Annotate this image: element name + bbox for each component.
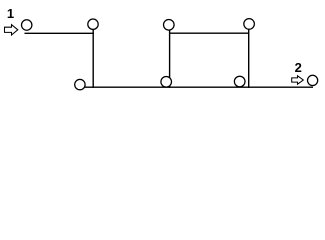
node H	[308, 75, 318, 85]
wire: bottom bus from node C to node H	[84, 86, 314, 88]
svg-text:1: 1	[7, 6, 14, 21]
arrow: output port 2	[292, 76, 304, 84]
wire: input lead from node A to corner	[25, 32, 94, 34]
wire: rectangle right vertical	[248, 29, 250, 88]
node B	[88, 19, 98, 29]
svg-text:2: 2	[295, 60, 302, 75]
node E	[164, 20, 175, 31]
wire: rectangle top horizontal	[170, 32, 249, 34]
node A	[22, 20, 32, 30]
wire: vertical drop from node B	[92, 29, 94, 88]
wire: rectangle left vertical	[169, 30, 171, 88]
node D	[161, 77, 172, 88]
node C	[75, 79, 85, 89]
arrow: input port 1	[5, 25, 18, 35]
node F	[244, 19, 255, 30]
node G	[234, 76, 245, 87]
